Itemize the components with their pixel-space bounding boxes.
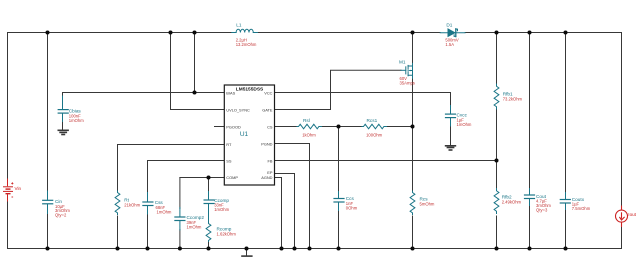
svg-text:1.62kOhm: 1.62kOhm <box>217 231 237 236</box>
wire Ccomp2 upper <box>179 178 181 209</box>
svg-text:RT: RT <box>226 142 232 147</box>
wire CS to Rsl <box>275 126 298 128</box>
svg-text:100Ohm: 100Ohm <box>366 133 383 138</box>
resistor Rcs1 <box>362 124 387 129</box>
svg-text:PGND: PGND <box>261 142 272 147</box>
wire PGND <box>275 144 310 249</box>
wire Css lower <box>147 214 149 249</box>
current source Iout <box>616 206 628 228</box>
wire right edge Iout upper <box>621 33 623 207</box>
svg-text:GATE: GATE <box>262 108 273 113</box>
node bottom rail PGND <box>308 247 312 251</box>
svg-text:Vin: Vin <box>15 186 22 191</box>
capacitor Cvcc <box>446 106 456 127</box>
svg-text:0Ohm: 0Ohm <box>346 205 358 210</box>
svg-text:1.5A: 1.5A <box>445 42 454 47</box>
node bottom rail Ccs <box>337 247 341 251</box>
wire Rfb1-FB-Rfb2 node <box>496 109 498 189</box>
svg-text:M1: M1 <box>399 60 406 65</box>
svg-text:VCC: VCC <box>264 91 272 96</box>
wire COMP horizontal <box>180 177 225 179</box>
svg-text:21kOhm: 21kOhm <box>124 203 140 208</box>
COMPONENT NAME LABELS (teal) <box>55 23 585 232</box>
wire top rail L1 to D1 <box>258 32 441 34</box>
wire Ccomp upper <box>208 178 210 193</box>
node COMP wire junction <box>207 176 211 180</box>
node CS M1 source junction <box>411 125 415 129</box>
svg-text:BIAS: BIAS <box>226 91 235 96</box>
wire Rfb1 upper <box>496 33 498 85</box>
wire Rcomp lower <box>208 241 210 249</box>
SOURCE LABELS (red) <box>15 186 637 217</box>
wire Rsl to Rcs1 <box>321 126 362 128</box>
wire Cin branch upper <box>47 33 49 192</box>
wire Coutx upper <box>565 33 567 194</box>
svg-text:1mOhm: 1mOhm <box>157 210 172 215</box>
VALUE LABELS (red) <box>55 38 591 237</box>
pin stub PGOOD <box>215 126 225 128</box>
wire ground stub bottom center <box>246 249 248 256</box>
wire SS horizontal <box>148 160 225 162</box>
capacitor Cout <box>525 189 535 206</box>
svg-text:35Amps: 35Amps <box>400 80 415 85</box>
wire EP <box>275 174 295 249</box>
diode D1 <box>440 29 465 37</box>
wire Ccs lower <box>338 210 340 249</box>
wire Cin branch lower <box>47 213 49 249</box>
transistor M1 <box>401 63 413 78</box>
capacitor Css <box>143 193 153 215</box>
node top rail BIAS branch <box>193 31 197 35</box>
node top rail UVLO branch <box>169 31 173 35</box>
node top rail Cout <box>528 31 532 35</box>
resistor Rcs <box>410 191 415 214</box>
node bottom rail EP <box>293 247 297 251</box>
wire FB <box>275 160 497 162</box>
svg-text:COMP: COMP <box>226 175 238 180</box>
node top rail Cin <box>46 31 50 35</box>
resistor Rsl <box>297 124 322 129</box>
wire UVLO_SYNC from top rail <box>171 33 225 110</box>
svg-text:1mOhm: 1mOhm <box>214 207 229 212</box>
node CS Ccs junction <box>337 125 341 129</box>
svg-text:FB: FB <box>268 159 273 164</box>
svg-text:Rcs1: Rcs1 <box>367 118 378 123</box>
node top rail Rfb1 <box>495 31 499 35</box>
svg-text:D1: D1 <box>446 23 452 28</box>
resistor Rcomp <box>206 212 211 242</box>
node bottom rail Rfb2 <box>495 247 499 251</box>
svg-text:U1: U1 <box>240 131 249 138</box>
node bottom rail Rcs <box>411 247 415 251</box>
wire right edge Iout lower <box>621 227 623 249</box>
node bottom rail Rt <box>116 247 120 251</box>
wire left edge Vin branch upper <box>7 33 9 180</box>
wire Rcs lower <box>412 216 414 249</box>
node top rail Coutx <box>564 31 568 35</box>
inductor L1 <box>232 29 258 32</box>
node top rail M1 drain <box>411 31 415 35</box>
svg-text:L1: L1 <box>236 23 242 28</box>
svg-text:AGND: AGND <box>261 175 272 180</box>
wire Rcs1 to M1 source node <box>386 126 413 128</box>
svg-text:13.2mOhm: 13.2mOhm <box>236 42 257 47</box>
ground at bottom rail <box>241 255 252 257</box>
svg-text:1mOhm: 1mOhm <box>69 118 84 123</box>
wire BIAS horizontal <box>63 92 225 94</box>
wire RT horizontal <box>118 144 225 146</box>
svg-text:Css: Css <box>155 200 164 205</box>
node bottom rail Cin <box>46 247 50 251</box>
wire GATE <box>275 70 402 109</box>
wire M1 source down <box>412 78 414 192</box>
wire Rt upper <box>117 145 119 192</box>
ground at Cvcc <box>445 146 456 150</box>
wire Ccs upper <box>338 127 340 193</box>
svg-text:Rsl: Rsl <box>303 118 310 123</box>
svg-text:1kOhm: 1kOhm <box>302 133 316 138</box>
svg-text:1mOhm: 1mOhm <box>457 122 472 127</box>
svg-text:SS: SS <box>226 159 232 164</box>
svg-text:UVLO_SYNC: UVLO_SYNC <box>226 108 250 113</box>
svg-text:73.2kOhm: 73.2kOhm <box>503 96 523 101</box>
svg-text:Qty=3: Qty=3 <box>536 208 548 213</box>
node bottom rail Coutx <box>564 247 568 251</box>
wire M1 drain to top rail <box>412 33 414 64</box>
capacitor Ccs <box>334 192 344 211</box>
wire Css upper <box>147 161 149 194</box>
GROUND SYMBOLS <box>58 130 457 256</box>
wire Cbias drop <box>62 93 64 97</box>
svg-text:7.5mOhm: 7.5mOhm <box>572 206 591 211</box>
wire Rfb2 lower <box>496 216 498 249</box>
svg-text:Iout: Iout <box>628 212 636 217</box>
node BIAS wire junction <box>193 91 197 95</box>
wire Cvcc to ground <box>450 126 452 146</box>
node FB junction <box>495 159 499 163</box>
wire bottom rail <box>8 248 622 250</box>
resistor Rfb1 <box>494 84 499 109</box>
ground at Cbias <box>58 130 69 134</box>
resistor Rt <box>115 191 120 214</box>
wire Cbias to ground <box>62 121 64 130</box>
capacitor Cin <box>43 191 53 214</box>
svg-text:5mOhm: 5mOhm <box>420 202 435 207</box>
svg-text:CS: CS <box>267 125 273 130</box>
node bottom rail Ccomp2 <box>178 247 182 251</box>
capacitor Ccomp2 <box>175 208 185 231</box>
node bottom rail Cout <box>528 247 532 251</box>
capacitor Ccomp <box>204 192 214 212</box>
wire Rt lower <box>117 216 119 249</box>
wire AGND <box>275 178 282 249</box>
wire left edge Vin branch lower <box>7 201 9 249</box>
wire BIAS from top rail <box>194 33 196 93</box>
capacitor Cbias <box>58 96 68 122</box>
node bottom rail ground <box>245 247 249 251</box>
resistor Rfb2 <box>494 189 499 214</box>
svg-text:PGOOD: PGOOD <box>226 125 241 130</box>
wire Cout upper <box>529 33 531 190</box>
voltage source Vin <box>3 179 13 202</box>
node bottom rail Css <box>146 247 150 251</box>
node bottom rail Rcomp <box>207 247 211 251</box>
op-amp U1 IC box LM5155DSS <box>224 85 274 185</box>
wire Cout lower <box>529 205 531 249</box>
capacitor Coutx <box>560 193 570 210</box>
svg-text:LM5155DSS: LM5155DSS <box>236 87 264 93</box>
wire Coutx lower <box>565 209 567 249</box>
TEAL COMPONENT SYMBOLS <box>43 29 571 242</box>
wire top rail left of L1 <box>8 32 232 34</box>
node bottom rail AGND <box>280 247 284 251</box>
wire Ccomp2 lower <box>179 230 181 249</box>
wire VCC to Cvcc <box>275 93 451 107</box>
svg-text:2.49kOhm: 2.49kOhm <box>502 200 522 205</box>
svg-text:Qty=2: Qty=2 <box>55 213 67 218</box>
svg-text:1mOhm: 1mOhm <box>187 225 202 230</box>
wire top rail D1 to right edge <box>465 32 621 34</box>
